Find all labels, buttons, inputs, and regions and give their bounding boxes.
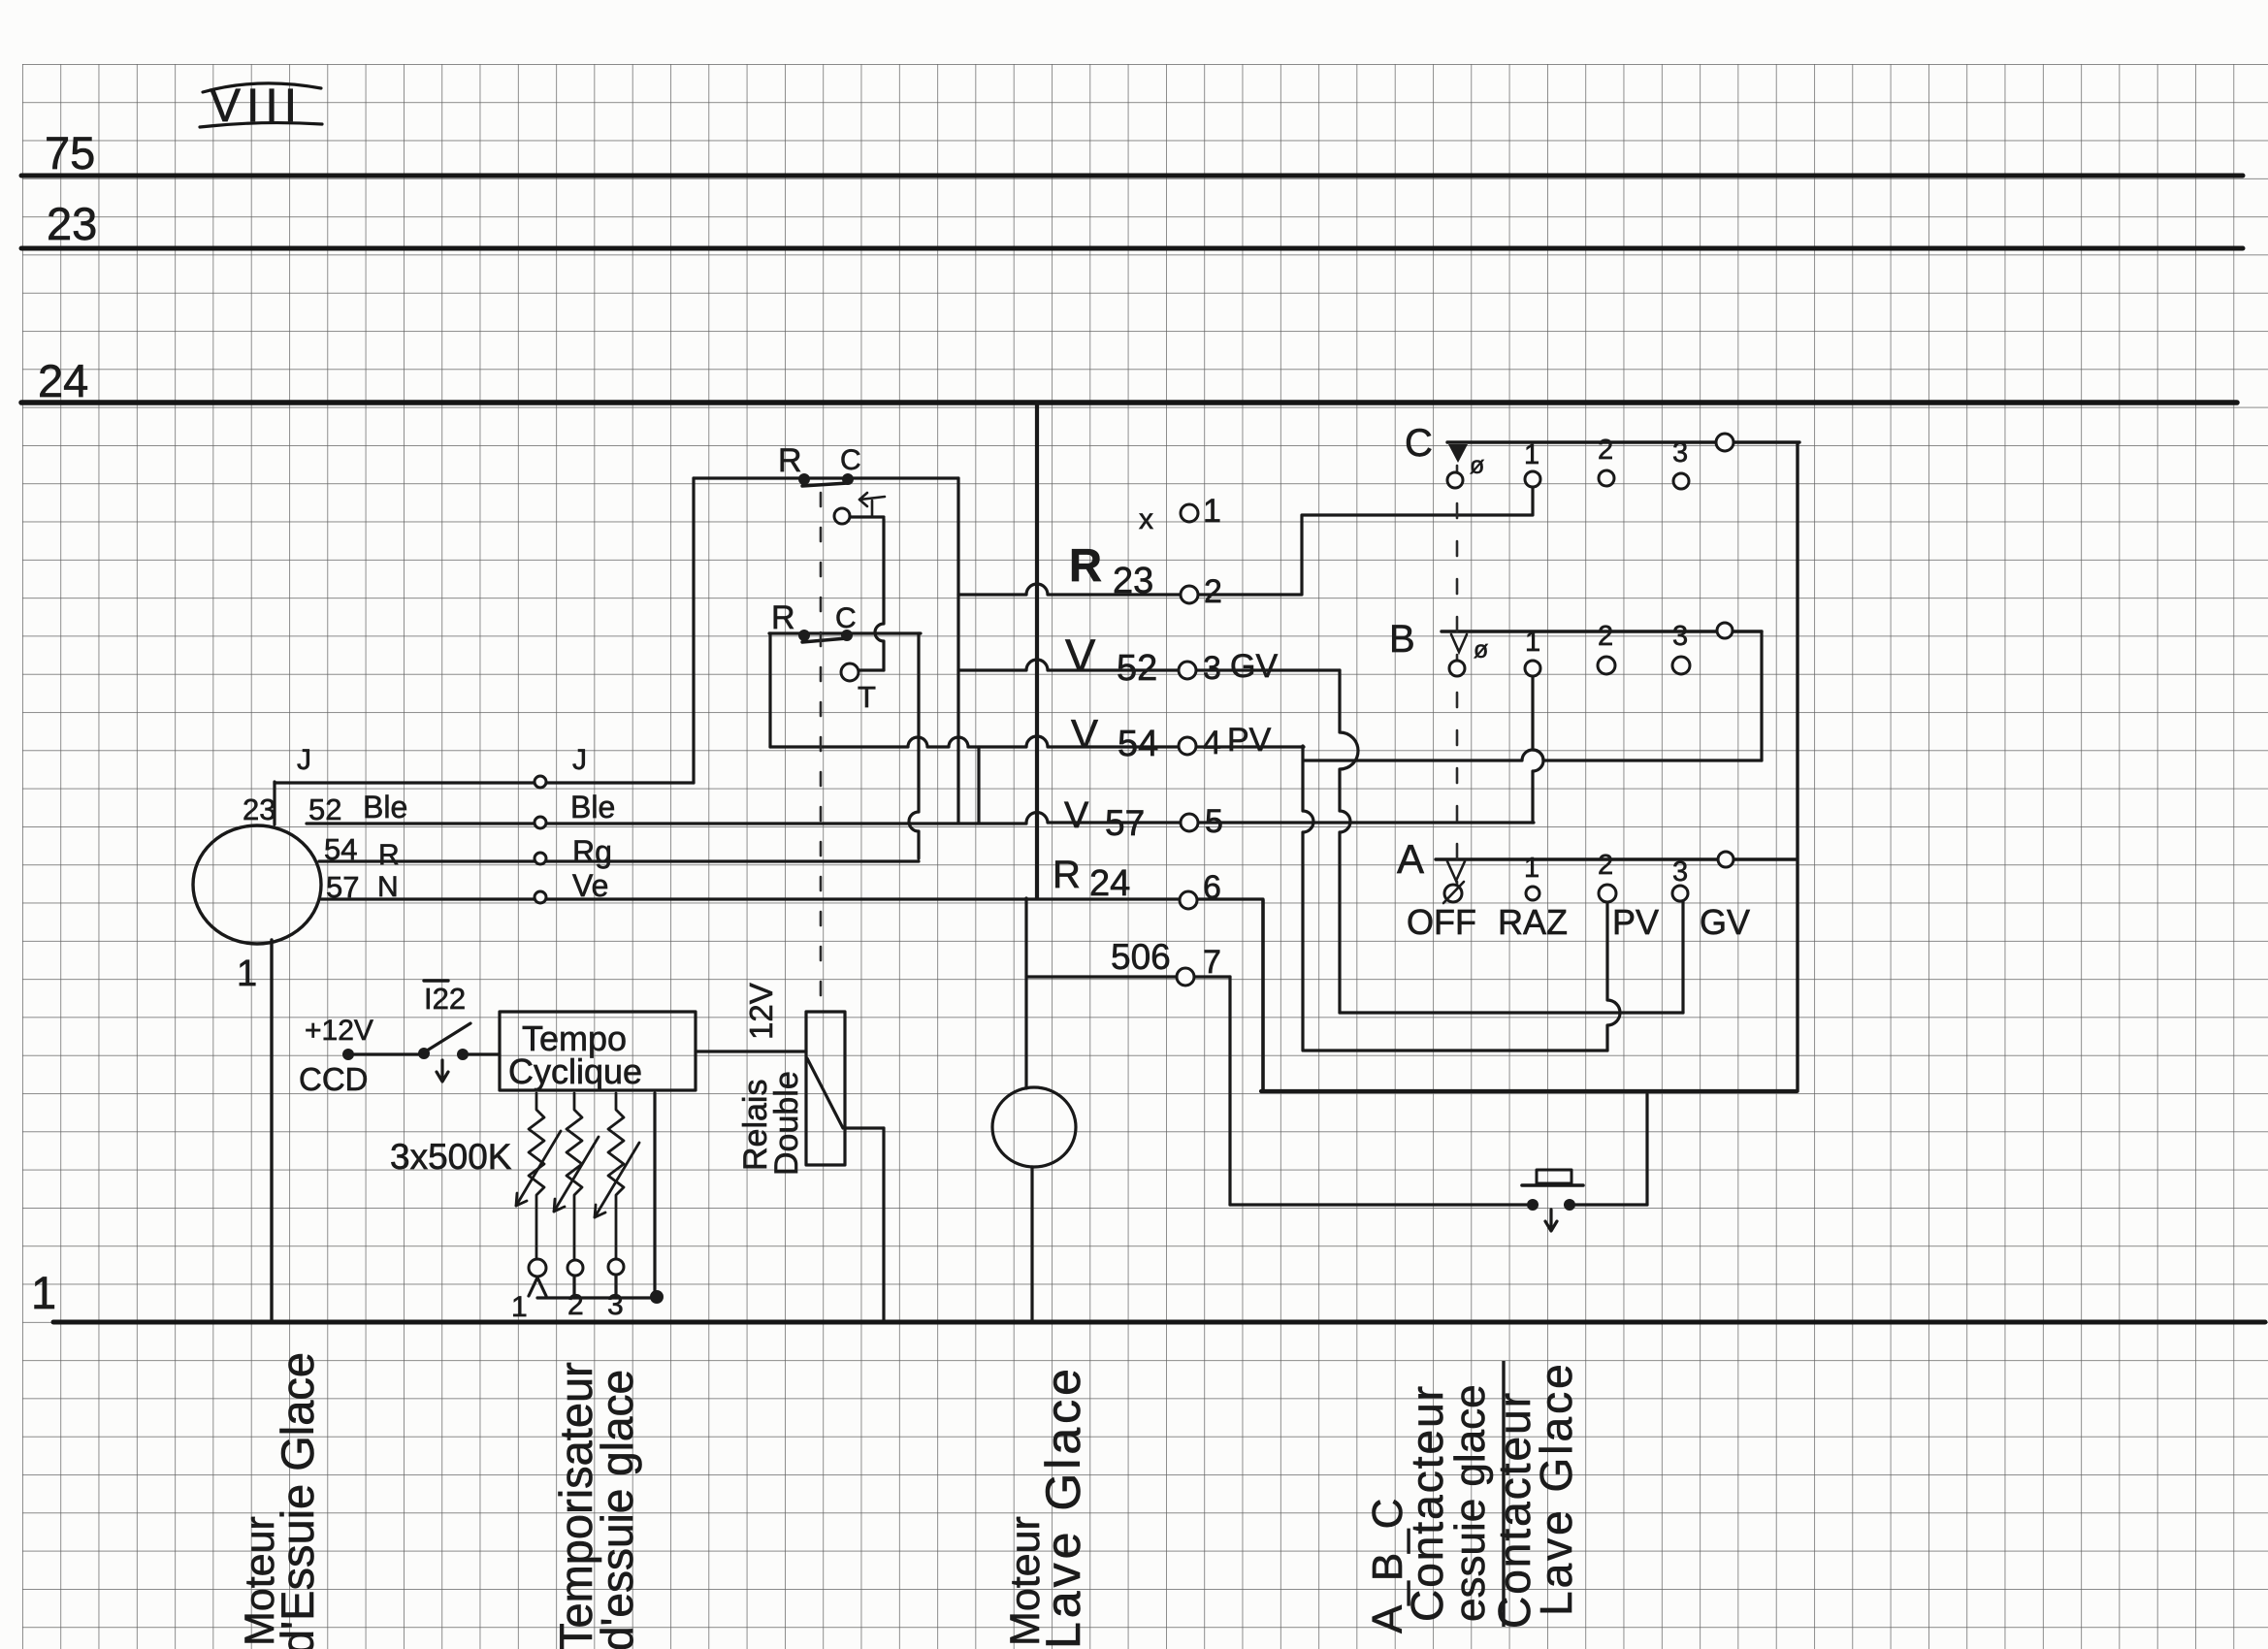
svg-text:57: 57	[326, 870, 359, 904]
svg-text:Lave Glace: Lave Glace	[1531, 1361, 1581, 1616]
svg-text:1: 1	[1524, 439, 1539, 470]
svg-text:PV: PV	[1227, 722, 1272, 759]
svg-text:R: R	[1069, 539, 1102, 591]
svg-text:52: 52	[1117, 648, 1157, 689]
svg-text:5: 5	[1205, 803, 1223, 840]
svg-text:Lave Glace: Lave Glace	[1036, 1365, 1090, 1649]
svg-text:x: x	[1139, 503, 1153, 535]
svg-text:2: 2	[1204, 573, 1222, 610]
svg-text:506: 506	[1111, 937, 1171, 977]
svg-text:52: 52	[308, 792, 341, 826]
svg-text:R: R	[771, 599, 795, 636]
svg-text:2: 2	[567, 1289, 584, 1321]
svg-text:R: R	[1053, 854, 1081, 896]
svg-text:4: 4	[1203, 725, 1221, 761]
svg-text:1: 1	[1524, 853, 1539, 884]
svg-text:24: 24	[38, 355, 88, 406]
svg-text:1: 1	[237, 954, 257, 994]
svg-text:GV: GV	[1230, 648, 1278, 685]
svg-text:Double: Double	[768, 1071, 805, 1176]
svg-text:54: 54	[1118, 724, 1158, 764]
svg-text:V: V	[1065, 630, 1096, 681]
svg-text:1: 1	[1525, 627, 1540, 658]
svg-text:PV: PV	[1612, 902, 1659, 942]
svg-text:T: T	[858, 680, 876, 714]
svg-text:23: 23	[47, 198, 97, 249]
svg-text:2: 2	[1598, 435, 1613, 466]
svg-text:24: 24	[1089, 863, 1130, 904]
svg-text:2: 2	[1598, 621, 1613, 652]
svg-text:6: 6	[1203, 869, 1221, 906]
svg-text:V: V	[1071, 711, 1098, 757]
svg-text:1: 1	[31, 1267, 56, 1318]
svg-text:d'essuie glace: d'essuie glace	[592, 1370, 642, 1649]
svg-text:C: C	[1405, 422, 1433, 465]
svg-text:57: 57	[1105, 803, 1145, 843]
svg-text:Cyclique: Cyclique	[508, 1051, 642, 1091]
svg-text:ø: ø	[1470, 452, 1484, 479]
svg-text:B: B	[1389, 618, 1415, 661]
svg-text:3: 3	[1672, 437, 1688, 469]
svg-text:7: 7	[1203, 944, 1221, 981]
svg-text:1: 1	[511, 1291, 528, 1323]
svg-text:CCD: CCD	[299, 1061, 369, 1097]
svg-text:I22: I22	[424, 982, 466, 1016]
svg-text:essuie glace: essuie glace	[1446, 1384, 1494, 1622]
svg-text:23: 23	[1113, 561, 1153, 601]
svg-text:3: 3	[607, 1289, 624, 1321]
svg-text:d'Essuie Glace: d'Essuie Glace	[272, 1352, 323, 1649]
svg-text:12V: 12V	[743, 983, 779, 1040]
svg-text:3: 3	[1672, 857, 1688, 888]
svg-text:R: R	[378, 839, 400, 871]
svg-text:1: 1	[1203, 493, 1221, 530]
svg-text:A: A	[1397, 836, 1424, 882]
svg-text:Ble: Ble	[363, 790, 407, 824]
svg-text:N: N	[377, 871, 399, 903]
svg-text:+12V: +12V	[305, 1015, 373, 1047]
svg-text:C: C	[835, 602, 857, 634]
svg-text:J: J	[572, 744, 587, 776]
svg-text:75: 75	[45, 127, 95, 178]
svg-text:54: 54	[324, 832, 357, 866]
svg-text:3x500K: 3x500K	[390, 1137, 512, 1177]
svg-text:GV: GV	[1700, 902, 1750, 942]
svg-text:V: V	[1064, 795, 1089, 836]
svg-text:3: 3	[1203, 650, 1221, 687]
svg-text:ø: ø	[1474, 636, 1488, 663]
svg-text:Contacteur: Contacteur	[1402, 1384, 1452, 1622]
svg-text:J: J	[297, 744, 311, 776]
svg-text:C: C	[840, 444, 861, 476]
svg-text:3: 3	[1672, 621, 1688, 652]
svg-text:Ve: Ve	[572, 868, 608, 903]
svg-text:R: R	[778, 442, 802, 479]
svg-text:Ble: Ble	[570, 790, 615, 824]
svg-text:OFF: OFF	[1407, 902, 1476, 942]
svg-text:2: 2	[1598, 850, 1613, 881]
svg-text:23: 23	[243, 792, 275, 826]
svg-text:RAZ: RAZ	[1498, 902, 1568, 942]
svg-text:Rg: Rg	[572, 834, 612, 869]
